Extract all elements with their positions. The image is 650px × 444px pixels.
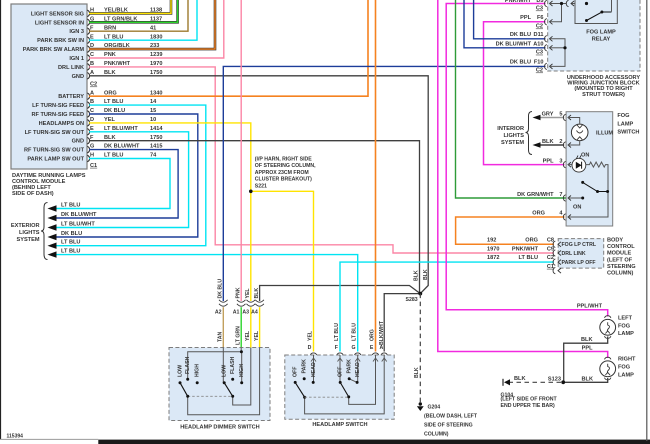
svg-text:F: F bbox=[90, 25, 94, 31]
svg-text:SIDE OF DASH): SIDE OF DASH) bbox=[12, 191, 54, 197]
DRL module pin labels (C2 group) bbox=[23, 11, 85, 79]
PPL/WHT label bbox=[577, 304, 603, 310]
svg-text:BLK: BLK bbox=[254, 288, 260, 299]
svg-text:115394: 115394 bbox=[7, 434, 24, 440]
DRL control module U1 box bbox=[11, 4, 87, 169]
svg-text:F10: F10 bbox=[534, 60, 544, 66]
svg-text:BLK: BLK bbox=[582, 376, 594, 382]
svg-text:1415: 1415 bbox=[150, 144, 162, 150]
svg-text:192: 192 bbox=[487, 238, 496, 244]
svg-text:SYSTEM: SYSTEM bbox=[501, 140, 524, 146]
svg-text:C3: C3 bbox=[536, 6, 543, 12]
fog switch ILLUM bulb bbox=[568, 118, 613, 146]
dashed BLK S283 to G204 bbox=[419, 294, 421, 403]
svg-text:7: 7 bbox=[559, 192, 562, 198]
wire DK BLU D11 bbox=[474, 0, 546, 39]
headlamp switch 1 contacts bbox=[294, 377, 315, 398]
svg-text:PNK/WHT: PNK/WHT bbox=[104, 61, 131, 67]
svg-text:LEFT: LEFT bbox=[618, 316, 633, 322]
wire LT BLU exterior row6 to headlamp switch G bbox=[57, 255, 358, 352]
svg-text:PARK BRK SW IN: PARK BRK SW IN bbox=[37, 38, 84, 44]
svg-text:LAMP: LAMP bbox=[618, 372, 634, 378]
BLK label right fog bbox=[582, 376, 594, 382]
svg-text:DK GRN/WHT: DK GRN/WHT bbox=[517, 192, 554, 198]
svg-text:RELAY: RELAY bbox=[592, 37, 611, 43]
headlamp internal connector arrows bbox=[311, 358, 387, 362]
svg-text:DK BLU/WHT: DK BLU/WHT bbox=[496, 42, 532, 48]
wire YEL below A4 bbox=[259, 307, 261, 347]
fog lamp switch caption bbox=[617, 113, 639, 136]
svg-text:INTERIOR: INTERIOR bbox=[497, 126, 524, 132]
svg-text:ON: ON bbox=[581, 153, 589, 159]
svg-text:LIGHT SENSOR IN: LIGHT SENSOR IN bbox=[35, 20, 84, 26]
svg-text:LT BLU: LT BLU bbox=[104, 34, 123, 40]
svg-text:YEL: YEL bbox=[307, 330, 313, 341]
page right border bbox=[646, 0, 648, 441]
headlamp switch rotated wire labels bbox=[307, 320, 385, 345]
svg-text:MODULE: MODULE bbox=[607, 251, 632, 257]
svg-text:HEADLAMPS ON: HEADLAMPS ON bbox=[39, 121, 84, 127]
svg-text:YEL: YEL bbox=[254, 330, 260, 341]
svg-text:HIGH: HIGH bbox=[239, 364, 245, 377]
fog switch toggle bbox=[568, 181, 609, 211]
wire DK BLU 15 module C to exterior row4 bbox=[57, 114, 198, 237]
wire DK BLU F10 to dimmer A2 bbox=[223, 66, 545, 301]
exterior arrow row6 bbox=[48, 249, 81, 258]
ground G104 bbox=[503, 379, 510, 386]
svg-text:PPL: PPL bbox=[543, 158, 554, 164]
left fog lamp bbox=[564, 316, 616, 383]
svg-text:COLUMN): COLUMN) bbox=[424, 432, 449, 438]
svg-text:A: A bbox=[90, 70, 94, 76]
svg-text:DK BLU/WHT: DK BLU/WHT bbox=[104, 144, 140, 150]
svg-text:LOW: LOW bbox=[178, 365, 184, 377]
dimmer inline connector A2 bbox=[219, 300, 228, 306]
dimmer rotated wire labels below connectors bbox=[218, 326, 260, 345]
svg-text:S221: S221 bbox=[255, 183, 267, 189]
svg-text:C: C bbox=[90, 52, 94, 58]
svg-text:FOG: FOG bbox=[618, 365, 630, 371]
svg-text:HEAD: HEAD bbox=[355, 362, 361, 377]
svg-text:BLK: BLK bbox=[104, 70, 116, 76]
svg-text:FLASH: FLASH bbox=[185, 356, 191, 374]
dashed BLK to G104 bbox=[510, 381, 561, 383]
wire LT BLU 1872 headlamp F to BCM C2 bbox=[340, 262, 554, 351]
svg-text:YEL: YEL bbox=[104, 117, 115, 123]
headlamp switch connectors at box top bbox=[310, 353, 387, 355]
svg-text:BLK: BLK bbox=[423, 269, 429, 280]
svg-text:LT BLU: LT BLU bbox=[352, 323, 358, 341]
dimmer switch 2 contacts bbox=[223, 378, 244, 398]
wire LT GRN below A1 bbox=[240, 307, 242, 352]
svg-text:ORG: ORG bbox=[369, 329, 375, 341]
dimmer green junction dot bbox=[240, 350, 243, 353]
exterior arrow row3 bbox=[48, 221, 96, 230]
wire LT BLU 74 module H to exterior row1 bbox=[57, 159, 171, 209]
dimmer inline connector A4 bbox=[255, 300, 264, 306]
svg-text:FOG LP CTRL: FOG LP CTRL bbox=[562, 242, 597, 248]
S283 BLK rotated labels bbox=[413, 269, 428, 281]
svg-text:BLK: BLK bbox=[413, 270, 419, 281]
headlamp switch pin letters bbox=[308, 345, 384, 351]
wire BLK 1750 module F to S283 bbox=[89, 141, 420, 294]
svg-text:FOG: FOG bbox=[618, 323, 630, 329]
svg-text:PARK: PARK bbox=[347, 359, 353, 374]
wire LT BLU/WHT 1414 module E to exterior row3 bbox=[57, 132, 189, 228]
exterior arrow row5 bbox=[48, 240, 81, 249]
svg-text:S123: S123 bbox=[548, 376, 561, 382]
svg-text:(BELOW DASH, LEFT: (BELOW DASH, LEFT bbox=[424, 414, 478, 420]
svg-text:BLK/WHT: BLK/WHT bbox=[379, 320, 385, 345]
wire YEL S221 branch to headlamp switch D bbox=[251, 191, 314, 351]
svg-text:A4: A4 bbox=[251, 310, 258, 316]
wire DK BLU/WHT 1415 module G to exterior row2 bbox=[57, 150, 179, 218]
BCM dashed box bbox=[558, 239, 604, 269]
BCM edge connectors bbox=[553, 241, 561, 274]
svg-text:GND: GND bbox=[72, 74, 84, 80]
wire TAN below A2 bbox=[222, 307, 224, 383]
svg-text:5: 5 bbox=[559, 112, 562, 118]
svg-text:RIGHT: RIGHT bbox=[618, 357, 636, 363]
BLK label left fog bbox=[581, 337, 593, 343]
bottom black bar bbox=[98, 440, 650, 444]
wire DK BLU/WHT A10 bbox=[464, 0, 546, 48]
S221 caption bbox=[255, 157, 316, 190]
svg-text:C2: C2 bbox=[90, 82, 97, 88]
svg-text:DK BLU: DK BLU bbox=[104, 108, 125, 114]
svg-text:E: E bbox=[90, 126, 94, 132]
fog switch edge connectors bbox=[563, 114, 571, 220]
svg-text:LF TURN-SIG FEED: LF TURN-SIG FEED bbox=[32, 103, 84, 109]
svg-text:BLK: BLK bbox=[514, 376, 526, 382]
DRL module pin labels (C1 group) bbox=[24, 94, 85, 162]
fog lamp switch box bbox=[566, 112, 613, 226]
svg-text:OFF: OFF bbox=[338, 367, 344, 377]
svg-text:PARK LP OFF: PARK LP OFF bbox=[562, 260, 596, 266]
wire BLK 1750 module A to S283 bbox=[89, 76, 428, 294]
svg-text:SWITCH: SWITCH bbox=[617, 130, 639, 136]
interior arrow GRY row bbox=[533, 112, 565, 121]
junction block caption bbox=[567, 75, 641, 98]
exterior arrow row4 bbox=[48, 231, 83, 240]
headlamp switch mechanical link dashed bbox=[305, 396, 349, 398]
svg-text:C3: C3 bbox=[536, 50, 543, 56]
svg-text:FOG LAMP: FOG LAMP bbox=[586, 30, 616, 36]
dimmer mechanical link dashed bbox=[188, 395, 233, 397]
wire PNK from top to dimmer A1 bbox=[240, 0, 242, 301]
svg-text:STEERING: STEERING bbox=[607, 264, 636, 270]
ground G204 bbox=[417, 402, 424, 411]
headlamp dimmer switch box bbox=[169, 348, 270, 431]
svg-text:D11: D11 bbox=[534, 32, 544, 38]
svg-text:G: G bbox=[90, 144, 94, 150]
svg-text:LF TURN-SIG SW OUT: LF TURN-SIG SW OUT bbox=[25, 130, 85, 136]
headlamp switch 2 contacts bbox=[339, 377, 359, 398]
svg-text:PNK/WHT: PNK/WHT bbox=[512, 246, 539, 252]
dimmer switch 1 contacts bbox=[179, 378, 199, 398]
svg-text:PPL: PPL bbox=[520, 15, 531, 21]
wire LT BLU 1830 bbox=[89, 0, 197, 40]
svg-text:PPL: PPL bbox=[582, 346, 593, 352]
svg-text:YEL: YEL bbox=[245, 330, 251, 341]
svg-text:LT BLU: LT BLU bbox=[104, 153, 123, 159]
dimmer inline connector A1 bbox=[237, 300, 246, 306]
splice S123 bbox=[548, 376, 565, 384]
svg-text:CLUSTER BREAKOUT): CLUSTER BREAKOUT) bbox=[255, 177, 312, 183]
svg-text:DK BLU: DK BLU bbox=[510, 60, 531, 66]
headlamp switch 2 labels bbox=[338, 359, 361, 377]
interior lights system label bbox=[497, 126, 524, 146]
svg-text:BLK: BLK bbox=[414, 367, 420, 378]
svg-text:PNK: PNK bbox=[235, 287, 241, 298]
interior lights system brace bbox=[526, 112, 533, 155]
junction block internal links bbox=[550, 4, 587, 67]
svg-text:BLK: BLK bbox=[581, 337, 593, 343]
svg-text:41: 41 bbox=[150, 25, 156, 31]
dimmer rotated wire labels above connectors bbox=[218, 279, 260, 299]
fog lamp relay K1 bbox=[575, 0, 617, 24]
svg-text:LT BLU/WHT: LT BLU/WHT bbox=[104, 126, 138, 132]
svg-text:3: 3 bbox=[559, 158, 562, 164]
svg-text:LT BLU: LT BLU bbox=[519, 255, 538, 261]
svg-text:DRL LINK: DRL LINK bbox=[58, 65, 84, 71]
wire BRN 41 bbox=[89, 0, 188, 31]
svg-text:RF TURN-SIG SW OUT: RF TURN-SIG SW OUT bbox=[24, 148, 85, 154]
exterior arrow row2 bbox=[48, 212, 98, 221]
dimmer switch 1 labels bbox=[178, 356, 201, 377]
svg-text:1970: 1970 bbox=[150, 61, 162, 67]
svg-text:1750: 1750 bbox=[150, 70, 162, 76]
exterior lights system label bbox=[11, 223, 40, 243]
svg-text:PNK/WHT: PNK/WHT bbox=[505, 0, 532, 4]
right fog lamp caption bbox=[618, 357, 636, 379]
svg-text:LT BLU: LT BLU bbox=[104, 99, 123, 105]
svg-text:LIGHTS: LIGHTS bbox=[19, 230, 40, 236]
svg-text:BLK: BLK bbox=[104, 135, 116, 141]
svg-text:DK BLU: DK BLU bbox=[218, 279, 224, 299]
G204 BLK rotated label bbox=[414, 367, 420, 378]
svg-text:BLK: BLK bbox=[542, 139, 554, 145]
svg-text:RF TURN-SIG FEED: RF TURN-SIG FEED bbox=[31, 112, 84, 118]
splice S221 bbox=[249, 190, 253, 194]
svg-text:ORG: ORG bbox=[525, 238, 538, 244]
pin letters and wire labels group C1 bbox=[90, 90, 163, 169]
svg-text:LT GRN: LT GRN bbox=[235, 326, 241, 345]
svg-text:PARK BRK SW ALARM: PARK BRK SW ALARM bbox=[23, 47, 85, 53]
svg-text:C1: C1 bbox=[90, 163, 97, 169]
BCM caption bbox=[607, 238, 636, 277]
svg-text:1872: 1872 bbox=[487, 255, 499, 261]
svg-text:DK BLU: DK BLU bbox=[510, 32, 531, 38]
svg-text:PARK LAMP SW OUT: PARK LAMP SW OUT bbox=[27, 157, 84, 163]
module connector arcs C1 bbox=[87, 93, 89, 162]
wire PPL from top to right fog lamp bbox=[438, 0, 608, 358]
exterior arrow row1 bbox=[48, 202, 81, 211]
svg-text:F6: F6 bbox=[537, 15, 544, 21]
svg-text:D: D bbox=[90, 117, 94, 123]
svg-text:PPL/WHT: PPL/WHT bbox=[577, 304, 603, 310]
svg-text:E: E bbox=[370, 345, 374, 351]
svg-text:APPROX 23CM FROM: APPROX 23CM FROM bbox=[255, 170, 309, 176]
svg-text:LOW: LOW bbox=[222, 365, 228, 377]
junction block row labels bbox=[496, 6, 544, 74]
svg-text:IGN 3: IGN 3 bbox=[69, 29, 84, 35]
svg-text:EXTERIOR: EXTERIOR bbox=[11, 223, 40, 229]
svg-text:DK BLU/WHT: DK BLU/WHT bbox=[61, 212, 97, 218]
svg-text:HEADLAMP DIMMER SWITCH: HEADLAMP DIMMER SWITCH bbox=[180, 425, 259, 431]
svg-text:H: H bbox=[90, 153, 94, 159]
svg-text:1750: 1750 bbox=[150, 135, 162, 141]
wire YEL 10 module D to S221 and dimmer A3 bbox=[89, 123, 251, 301]
svg-text:C2: C2 bbox=[547, 255, 554, 261]
svg-text:10: 10 bbox=[150, 117, 156, 123]
junction internal dots bbox=[560, 2, 567, 50]
svg-text:A10: A10 bbox=[533, 42, 543, 48]
svg-text:74: 74 bbox=[150, 153, 157, 159]
svg-text:C: C bbox=[90, 108, 94, 114]
svg-text:S283: S283 bbox=[406, 297, 418, 303]
junction internal connector bbox=[566, 0, 574, 6]
svg-text:COLUMN): COLUMN) bbox=[607, 271, 634, 277]
junction block top row cut label bbox=[505, 0, 544, 4]
svg-text:HIGH: HIGH bbox=[195, 364, 201, 377]
svg-text:LAMP: LAMP bbox=[617, 121, 633, 127]
svg-text:YEL: YEL bbox=[245, 288, 251, 299]
wire PNK 1239 (module C up) bbox=[89, 0, 224, 58]
fog switch LED indicator bbox=[568, 153, 589, 172]
junction block edge connectors bbox=[545, 0, 553, 69]
svg-text:(I/P HARN, RIGHT SIDE: (I/P HARN, RIGHT SIDE bbox=[255, 157, 313, 163]
svg-text:SYSTEM: SYSTEM bbox=[16, 237, 39, 243]
svg-text:LIGHT SENSOR SIG: LIGHT SENSOR SIG bbox=[31, 11, 84, 17]
dimmer switch 2 labels bbox=[222, 356, 246, 377]
svg-text:B: B bbox=[90, 61, 94, 67]
wire PNK/WHT 1970 module B to BCM C9 bbox=[89, 67, 554, 253]
wire LT GRN/BLK 1137 bbox=[89, 0, 178, 22]
svg-text:2: 2 bbox=[559, 139, 562, 145]
svg-text:1414: 1414 bbox=[150, 126, 163, 132]
dimmer internal wires bbox=[188, 348, 260, 415]
svg-text:LT BLU: LT BLU bbox=[61, 249, 80, 255]
svg-text:C2: C2 bbox=[536, 24, 543, 30]
svg-text:LT BLU: LT BLU bbox=[61, 240, 80, 246]
svg-text:D: D bbox=[308, 345, 312, 351]
headlamp switch 1 labels bbox=[293, 359, 318, 377]
DRL module caption bbox=[12, 173, 86, 197]
svg-text:A2: A2 bbox=[215, 310, 222, 316]
svg-text:A1: A1 bbox=[233, 310, 240, 316]
svg-text:BODY: BODY bbox=[607, 238, 623, 244]
interior arrow BLK row bbox=[533, 139, 565, 148]
BLK label dashed bbox=[514, 376, 526, 382]
svg-text:14: 14 bbox=[150, 99, 157, 105]
page left border bbox=[0, 0, 2, 439]
page bottom rule bbox=[0, 438, 98, 440]
wire YEL/BLK 1138 bbox=[89, 0, 171, 13]
svg-text:HEAD: HEAD bbox=[311, 362, 317, 377]
headlamp switch internal wires bbox=[305, 355, 385, 414]
svg-text:BRN: BRN bbox=[104, 25, 116, 31]
headlamp switch box bbox=[285, 355, 394, 428]
svg-text:1239: 1239 bbox=[150, 52, 162, 58]
svg-text:PNK: PNK bbox=[104, 52, 116, 58]
wire BLK/WHT S283 to headlamp A bbox=[384, 294, 420, 352]
wire DK GRN/WHT from top to fog switch 7 bbox=[456, 0, 567, 198]
svg-text:FLASH: FLASH bbox=[230, 356, 236, 374]
svg-text:(LEFT SIDE OF FRONT: (LEFT SIDE OF FRONT bbox=[501, 397, 558, 403]
wire PPL/WHT from junction C3 to left fog lamp bbox=[446, 4, 608, 317]
fog lamp relay caption bbox=[586, 30, 616, 43]
svg-text:A3: A3 bbox=[242, 310, 249, 316]
svg-text:C2: C2 bbox=[536, 68, 543, 74]
wire ORG 192 fog switch 4 to BCM C8 bbox=[456, 217, 565, 244]
svg-text:GND: GND bbox=[72, 139, 84, 145]
underhood junction block dashed box bbox=[548, 0, 640, 71]
svg-text:G204: G204 bbox=[428, 405, 441, 411]
G204 caption bbox=[424, 405, 478, 438]
svg-text:FOG: FOG bbox=[617, 113, 629, 119]
svg-text:15: 15 bbox=[150, 108, 156, 114]
fog switch resistor bbox=[568, 162, 608, 217]
svg-text:SIDE OF STEERING: SIDE OF STEERING bbox=[424, 423, 473, 429]
svg-text:LT BLU: LT BLU bbox=[61, 202, 80, 208]
exterior lights system brace bbox=[41, 203, 48, 260]
left fog lamp caption bbox=[618, 316, 634, 338]
svg-text:B: B bbox=[90, 99, 94, 105]
svg-text:ON: ON bbox=[573, 205, 581, 211]
svg-text:LIGHTS: LIGHTS bbox=[503, 133, 524, 139]
svg-text:OF STEERING COLUMN,: OF STEERING COLUMN, bbox=[255, 163, 316, 169]
svg-text:PARK: PARK bbox=[302, 359, 308, 374]
splice S283 bbox=[406, 292, 423, 303]
module connector arcs C2 bbox=[87, 10, 89, 79]
BCM row labels bbox=[487, 238, 554, 270]
dimmer inline connector A3 bbox=[247, 300, 256, 306]
svg-text:OFF: OFF bbox=[293, 367, 299, 377]
svg-text:D5: D5 bbox=[536, 0, 543, 4]
svg-text:1830: 1830 bbox=[150, 34, 162, 40]
svg-text:HEADLAMP SWITCH: HEADLAMP SWITCH bbox=[312, 422, 367, 428]
svg-text:(LEFT OF: (LEFT OF bbox=[607, 257, 633, 263]
svg-text:E: E bbox=[90, 34, 94, 40]
svg-text:LT BLU/WHT: LT BLU/WHT bbox=[61, 221, 95, 227]
PPL label right fog feed bbox=[582, 346, 593, 352]
svg-text:BATTERY: BATTERY bbox=[58, 94, 84, 100]
svg-text:DK BLU: DK BLU bbox=[61, 231, 82, 237]
svg-text:STRUT TOWER): STRUT TOWER) bbox=[582, 92, 625, 98]
svg-text:ILLUM: ILLUM bbox=[596, 131, 613, 137]
wire LT BLU 14 module B to exterior row5 bbox=[57, 105, 206, 246]
wire BLK S283 to dimmer A4 bbox=[260, 286, 421, 302]
wire YEL below A3 bbox=[250, 307, 252, 347]
svg-text:GRY: GRY bbox=[542, 112, 554, 118]
wire ORG from top to headlamp switch E bbox=[375, 0, 377, 352]
svg-text:END UPPER TIE BAR): END UPPER TIE BAR) bbox=[501, 403, 555, 409]
svg-text:TAN: TAN bbox=[218, 331, 224, 342]
wire ORG/BLK 233 bbox=[89, 0, 215, 49]
fog switch pin number labels bbox=[517, 158, 563, 216]
svg-text:IGN 1: IGN 1 bbox=[69, 56, 84, 62]
right fog lamp bbox=[563, 357, 615, 382]
svg-text:LT BLU: LT BLU bbox=[334, 323, 340, 341]
svg-text:1970: 1970 bbox=[487, 246, 499, 252]
G104 caption bbox=[501, 392, 558, 409]
page number 115394 bbox=[7, 434, 24, 440]
svg-text:DRL LINK: DRL LINK bbox=[562, 251, 586, 257]
dimmer connector pin labels bbox=[215, 310, 258, 316]
svg-text:G: G bbox=[352, 345, 356, 351]
svg-text:LAMP: LAMP bbox=[618, 331, 634, 337]
